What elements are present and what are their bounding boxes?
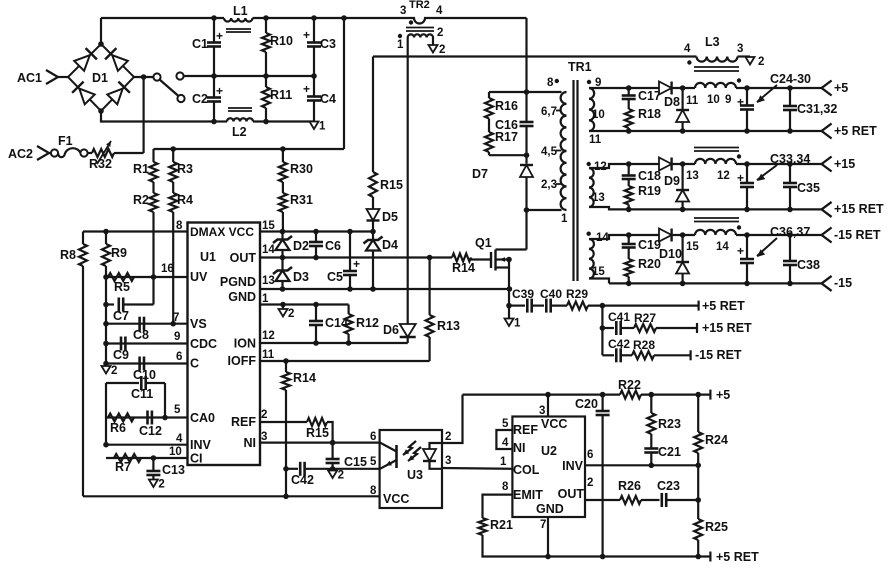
svg-text:C40: C40: [540, 287, 562, 301]
capacitor C5: [327, 232, 360, 290]
diode D6: [383, 323, 416, 343]
resistor R15 upper: [369, 57, 403, 198]
svg-text:+: +: [303, 82, 310, 96]
filter mid rail: [211, 73, 317, 79]
INV row pin4: [103, 442, 187, 448]
capacitor C39: [509, 287, 534, 313]
wire R29 to +5 RET tap: [588, 303, 699, 309]
capacitor C40: [532, 287, 567, 313]
resistor R1: [133, 149, 158, 182]
transistor Q1: [471, 236, 527, 271]
ground 1 below Q1: [505, 318, 522, 330]
svg-text:+5 RET: +5 RET: [702, 299, 745, 313]
diode D8: [659, 82, 680, 110]
capacitor C35: [783, 164, 820, 209]
svg-text:D8: D8: [664, 95, 680, 109]
capacitor C11: [106, 376, 165, 418]
pin 8 DMAX row: [83, 229, 188, 235]
svg-text:R28: R28: [633, 338, 655, 352]
capacitor C23: [657, 479, 698, 507]
U3 pin labels: [370, 431, 451, 497]
terminal -15 RET mid: [691, 348, 742, 362]
wire Q1 drain up: [525, 210, 527, 250]
terminal +5 RET bottom: [710, 550, 759, 564]
+15 rail: [589, 161, 822, 168]
svg-text:13: 13: [592, 192, 605, 204]
wire TR1 pin1: [527, 209, 562, 211]
PGND row pin13: [260, 286, 512, 292]
wire bridge top to bus: [100, 18, 102, 44]
transformer TR2 secondary: [397, 27, 443, 51]
svg-text:R24: R24: [705, 433, 728, 447]
svg-text:+: +: [737, 244, 744, 258]
svg-text:4: 4: [176, 433, 183, 445]
capacitor C24-30: [737, 72, 811, 131]
op-amp U3 optocoupler box: [380, 430, 442, 508]
resistor R30: [279, 149, 313, 182]
svg-text:D1: D1: [92, 71, 108, 85]
svg-text:R29: R29: [566, 287, 588, 301]
svg-text:C24-30: C24-30: [770, 72, 811, 86]
svg-text:+15 RET: +15 RET: [702, 321, 752, 335]
ground 2 below C13: [149, 479, 165, 491]
capacitor C3: [303, 18, 336, 76]
resistor R31: [279, 182, 313, 232]
terminal +5 bottom: [710, 388, 730, 402]
U2 GND stub: [547, 517, 549, 557]
svg-text:12: 12: [262, 330, 275, 342]
VCC rail pin15: [260, 229, 376, 235]
svg-text:C12: C12: [139, 424, 162, 438]
svg-text:C33,34: C33,34: [770, 152, 810, 166]
svg-text:VCC: VCC: [383, 492, 409, 506]
diode D9: [659, 158, 680, 189]
diode D7: [472, 155, 533, 213]
svg-text:U2: U2: [541, 444, 557, 458]
wire R24 to R25: [695, 465, 701, 519]
svg-text:COL: COL: [513, 463, 540, 477]
NI row pin3: [260, 440, 380, 446]
terminal +15 RET: [822, 202, 884, 217]
op-amp U2 regulator box: [512, 417, 585, 518]
ground 2 below C15: [328, 470, 344, 482]
resistor R28: [632, 338, 691, 359]
COL wire U3 to U2: [442, 467, 512, 470]
wire bridge junction down to AC2 line: [143, 77, 145, 153]
svg-text:R15: R15: [306, 426, 329, 440]
bottom GND rail right: [545, 554, 710, 560]
svg-text:3: 3: [737, 43, 743, 55]
CI row pin10: [106, 455, 188, 461]
wire L3 to terminal 2: [738, 55, 751, 57]
capacitor C38: [783, 235, 820, 283]
svg-text:C6: C6: [325, 239, 341, 253]
svg-text:5: 5: [502, 418, 509, 430]
svg-text:CI: CI: [190, 452, 203, 466]
svg-text:NI: NI: [244, 436, 257, 450]
svg-text:1: 1: [319, 121, 326, 133]
svg-text:6: 6: [176, 351, 182, 363]
freewheel diode D9b: [676, 164, 689, 209]
svg-text:INV: INV: [562, 459, 584, 473]
svg-text:R25: R25: [705, 520, 728, 534]
svg-text:+5: +5: [834, 81, 848, 95]
capacitor C8: [133, 317, 149, 342]
U2 VCC stub: [547, 395, 549, 417]
+5 rail: [589, 85, 822, 91]
zener D2: [273, 232, 309, 258]
resistor R2: [133, 182, 158, 277]
wire D5 to VCC rail: [372, 221, 374, 232]
wire bridge right to switch: [134, 74, 154, 80]
svg-text:AC2: AC2: [8, 147, 33, 161]
U2 pin labels: [500, 405, 593, 531]
svg-text:+15 RET: +15 RET: [834, 202, 884, 216]
svg-text:15: 15: [686, 241, 699, 253]
resistor R25: [694, 519, 728, 557]
choke core lines top: [694, 67, 739, 71]
svg-text:OUT: OUT: [230, 251, 257, 265]
snubber R19: [625, 179, 661, 209]
svg-text:NI: NI: [513, 441, 526, 455]
resistor R24: [694, 395, 728, 466]
svg-text:C13: C13: [162, 463, 185, 477]
svg-text:5: 5: [370, 456, 377, 468]
svg-text:4: 4: [436, 5, 443, 17]
inductor L1: [224, 4, 253, 32]
svg-text:2: 2: [758, 56, 764, 68]
capacitor C10: [133, 357, 156, 383]
svg-text:+: +: [737, 95, 744, 109]
svg-text:IOFF: IOFF: [228, 354, 257, 368]
svg-text:ION: ION: [234, 337, 256, 351]
svg-text:2: 2: [338, 470, 344, 482]
capacitor C13: [146, 458, 185, 480]
svg-text:R19: R19: [638, 184, 661, 198]
svg-text:3: 3: [400, 5, 406, 17]
svg-text:2: 2: [158, 479, 164, 491]
svg-text:C8: C8: [133, 328, 149, 342]
svg-text:R5: R5: [114, 280, 130, 294]
svg-text:+5 RET: +5 RET: [716, 550, 759, 564]
resistor R22: [603, 378, 641, 399]
capacitor C1: [192, 18, 223, 76]
svg-text:C38: C38: [797, 258, 820, 272]
svg-text:R3: R3: [177, 162, 193, 176]
svg-text:9: 9: [174, 331, 180, 343]
wire TR2 pin1 down to D6: [407, 38, 409, 326]
svg-text:+: +: [216, 84, 223, 98]
transformer TR1 core: [574, 80, 578, 281]
svg-text:R4: R4: [177, 193, 193, 207]
svg-text:C39: C39: [512, 287, 534, 301]
U2 REF-NI loop: [496, 430, 512, 449]
svg-text:GND: GND: [536, 502, 564, 516]
capacitor C36,37: [737, 225, 810, 283]
ground 1 below C4: [310, 121, 327, 133]
CA0 row pin5: [106, 383, 188, 445]
capacitor C9: [113, 337, 129, 363]
svg-text:2: 2: [439, 44, 445, 56]
svg-text:C42: C42: [608, 337, 630, 351]
svg-text:C15: C15: [344, 455, 367, 469]
svg-text:D6: D6: [383, 323, 399, 337]
svg-text:F1: F1: [58, 134, 73, 148]
svg-text:VCC: VCC: [541, 417, 567, 431]
svg-text:D5: D5: [382, 210, 398, 224]
resistor R17: [485, 119, 518, 156]
svg-text:3: 3: [445, 455, 451, 467]
svg-text:6,7: 6,7: [541, 106, 557, 118]
resistor R9: [102, 232, 127, 364]
svg-text:AC1: AC1: [17, 71, 42, 85]
svg-text:R13: R13: [437, 319, 460, 333]
C row pin6: [103, 361, 187, 367]
fuse F1: [51, 134, 92, 157]
svg-text:R18: R18: [638, 107, 661, 121]
svg-text:10: 10: [707, 94, 720, 106]
svg-text:UV: UV: [190, 270, 208, 284]
svg-text:4: 4: [502, 437, 509, 449]
svg-text:9: 9: [725, 94, 731, 106]
+5 feed rail: [463, 392, 711, 398]
svg-text:14: 14: [262, 244, 275, 256]
resistor R23: [647, 395, 681, 448]
svg-text:R11: R11: [270, 88, 292, 102]
svg-text:R22: R22: [618, 378, 641, 392]
svg-text:16: 16: [161, 263, 174, 275]
transformer TR1 secondary 9-10-11: [587, 77, 605, 146]
OUT row pin14: [260, 255, 452, 261]
OUT row U2: [585, 499, 620, 501]
GND row pin1: [260, 302, 349, 308]
op-amp U1 controller box: [188, 223, 261, 466]
svg-text:R17: R17: [495, 130, 518, 144]
resistor R3: [169, 149, 193, 182]
svg-text:DMAX VCC: DMAX VCC: [190, 225, 254, 239]
resistor R16: [485, 92, 518, 119]
svg-text:+: +: [737, 171, 744, 185]
resistor R10: [262, 18, 293, 76]
svg-text:C16: C16: [495, 118, 518, 132]
svg-text:R32: R32: [89, 157, 112, 171]
diode D5: [367, 197, 399, 224]
startup rail: [154, 146, 345, 152]
VS row pin7: [103, 321, 187, 327]
svg-text:C9: C9: [113, 348, 129, 362]
svg-text:EMIT: EMIT: [513, 488, 543, 502]
terminal -15: [822, 276, 853, 291]
svg-text:R1: R1: [133, 162, 149, 176]
svg-text:8: 8: [502, 481, 509, 493]
wire R32 to bridge junction: [114, 152, 144, 154]
svg-text:11: 11: [686, 95, 699, 107]
svg-text:D10: D10: [659, 247, 682, 261]
capacitor C33,34: [737, 152, 810, 209]
capacitor C16: [495, 92, 534, 155]
svg-text:C18: C18: [638, 169, 661, 183]
resistor R27: [634, 311, 697, 332]
svg-text:U3: U3: [407, 468, 423, 482]
svg-text:C41: C41: [608, 310, 630, 324]
wire switch to filter mid rail: [184, 75, 214, 77]
svg-text:C19: C19: [638, 238, 661, 252]
svg-text:3: 3: [261, 431, 267, 443]
capacitor C12: [139, 411, 162, 439]
resistor R7: [114, 454, 141, 474]
svg-text:L2: L2: [232, 125, 247, 139]
bottom rail left: [83, 494, 380, 500]
capacitor C31,32: [783, 88, 837, 131]
svg-text:-15: -15: [834, 276, 852, 290]
wire GND to ground: [282, 305, 284, 310]
svg-text:REF: REF: [513, 423, 538, 437]
resistor R32 (variable): [89, 141, 114, 171]
transformer TR1 primary: [541, 60, 592, 225]
svg-text:4,5: 4,5: [541, 146, 558, 158]
capacitor C2: [192, 76, 223, 122]
svg-text:2: 2: [587, 477, 593, 489]
REF row pin2: [260, 421, 307, 423]
svg-text:R7: R7: [115, 460, 131, 474]
zener D3: [273, 258, 309, 290]
filter bottom rail: [211, 119, 314, 125]
svg-text:R16: R16: [495, 99, 518, 113]
svg-text:15: 15: [592, 266, 605, 278]
wire C41/C42 branch drop: [600, 306, 606, 356]
transformer TR2 core: [406, 28, 434, 32]
terminal +5: [822, 81, 849, 96]
-15 RET rail: [589, 232, 822, 239]
svg-text:1: 1: [500, 456, 507, 468]
svg-text:R2: R2: [133, 193, 149, 207]
svg-text:C42: C42: [291, 473, 314, 487]
svg-text:CDC: CDC: [190, 337, 217, 351]
svg-text:D4: D4: [382, 238, 398, 252]
svg-text:PGND: PGND: [220, 275, 256, 289]
transformer TR1 secondary 12-13: [587, 161, 607, 207]
svg-text:L1: L1: [233, 4, 248, 18]
svg-text:8: 8: [547, 77, 554, 89]
transformer TR2 primary: [400, 0, 443, 25]
svg-text:+: +: [216, 29, 223, 43]
svg-text:C17: C17: [638, 89, 661, 103]
svg-text:6: 6: [587, 449, 593, 461]
clamp bottom wire: [489, 152, 529, 158]
capacitor C41: [602, 310, 634, 335]
svg-text:C35: C35: [797, 181, 820, 195]
ground 2 at U1 GND: [279, 308, 295, 320]
+15 RET rail: [589, 207, 822, 213]
svg-text:12: 12: [717, 170, 730, 182]
wire Q1 source down: [506, 268, 512, 319]
AC2 input terminal: [8, 146, 51, 161]
svg-text:R10: R10: [270, 34, 293, 48]
svg-text:-15 RET: -15 RET: [834, 228, 881, 242]
svg-text:11: 11: [262, 349, 275, 361]
resistor R8: [60, 232, 87, 497]
bridge rectifier D1: [68, 41, 134, 114]
ground 2 left network: [102, 365, 118, 377]
svg-text:R21: R21: [490, 518, 513, 532]
svg-text:8: 8: [176, 220, 183, 232]
AC1 input terminal: [17, 70, 68, 85]
U3 phototransistor: [380, 443, 397, 469]
svg-text:CA0: CA0: [190, 411, 215, 425]
ground 2 at TR2: [429, 44, 446, 56]
snubber R20: [625, 248, 661, 284]
choke core lines mid: [694, 148, 739, 152]
svg-text:4: 4: [684, 43, 691, 55]
capacitor C42 mid: [602, 337, 632, 362]
svg-text:3: 3: [539, 405, 545, 417]
svg-text:C31,32: C31,32: [797, 102, 837, 116]
terminal +5 RET: [822, 124, 877, 139]
svg-text:R8: R8: [60, 248, 76, 262]
svg-text:C20: C20: [575, 397, 598, 411]
svg-text:C11: C11: [131, 387, 153, 401]
U3 pin5 row: [305, 466, 380, 472]
-15 rail: [589, 279, 822, 287]
resistor R13: [426, 258, 460, 362]
U3 LED: [423, 443, 442, 469]
svg-text:C: C: [190, 357, 199, 371]
svg-text:OUT: OUT: [558, 487, 585, 501]
svg-text:13: 13: [262, 275, 275, 287]
svg-text:INV: INV: [190, 438, 212, 452]
wire bridge bottom: [101, 111, 214, 122]
svg-text:R15: R15: [380, 178, 403, 192]
svg-text:D2: D2: [293, 239, 309, 253]
svg-text:1: 1: [514, 318, 521, 330]
svg-text:2: 2: [111, 365, 117, 377]
svg-text:R27: R27: [634, 311, 656, 325]
terminal -15 RET: [822, 228, 881, 243]
svg-text:C7: C7: [113, 309, 129, 323]
svg-text:2: 2: [261, 409, 267, 421]
svg-text:10: 10: [592, 109, 605, 121]
terminal +5 RET mid: [699, 299, 745, 313]
svg-text:15: 15: [262, 220, 275, 232]
svg-text:D9: D9: [664, 174, 680, 188]
choke core lines bottom: [694, 218, 739, 222]
svg-text:R12: R12: [356, 316, 379, 330]
svg-text:R30: R30: [290, 162, 313, 176]
wire bus right drop to startup rail: [343, 18, 345, 149]
capacitor C20: [575, 395, 610, 557]
svg-text:14: 14: [716, 241, 729, 253]
svg-text:2: 2: [437, 27, 443, 39]
snubber C19: [622, 235, 661, 252]
svg-text:6: 6: [370, 431, 376, 443]
U1 pin number labels: [161, 220, 275, 458]
svg-text:R9: R9: [111, 246, 127, 260]
svg-text:5: 5: [174, 404, 181, 416]
resistor R12: [345, 305, 379, 344]
freewheel diode D8b: [676, 88, 689, 131]
terminal +15 RET mid: [697, 321, 752, 335]
resistor R14 gate: [452, 254, 475, 276]
svg-text:REF: REF: [231, 415, 256, 429]
resistor R6: [108, 414, 134, 436]
svg-text:C4: C4: [320, 92, 336, 106]
svg-text:2: 2: [288, 308, 294, 320]
inductor L3 aux winding: [684, 35, 743, 65]
svg-text:D3: D3: [293, 270, 309, 284]
terminal +15: [822, 157, 856, 172]
ground arrow 2 at L3: [746, 56, 765, 68]
svg-text:C5: C5: [327, 270, 343, 284]
